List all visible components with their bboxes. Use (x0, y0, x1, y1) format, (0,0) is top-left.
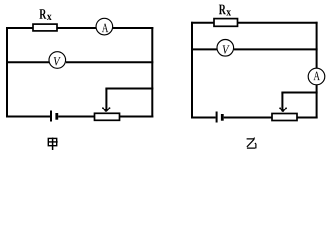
ammeter A (甲) (96, 18, 113, 35)
battery cell (甲): long positive plate (50, 111, 52, 122)
wire: resistor to top-right corner (乙) (238, 22, 318, 24)
battery cell (乙): long positive plate (216, 112, 218, 123)
voltmeter V (乙) (217, 40, 234, 57)
wire: middle left to voltmeter (乙) (191, 48, 217, 50)
wire: right edge lower, ammeter to bottom corner (乙) (316, 85, 318, 119)
wire: middle left to voltmeter (甲) (6, 61, 49, 63)
battery cell (甲): short negative plate (55, 113, 58, 120)
voltmeter V (甲) (49, 52, 66, 69)
battery cell (乙): short negative plate (221, 114, 224, 121)
resistor R_x (乙) (214, 19, 238, 27)
rheostat slider arrow (甲) (105, 89, 107, 111)
label R_x (甲) (39, 9, 46, 19)
wire: left edge (乙) (191, 22, 193, 119)
wire: right edge (甲) (151, 27, 153, 118)
wire: ammeter to top-right corner (甲) (113, 27, 153, 29)
wire: bottom left to battery (乙) (192, 117, 216, 119)
rheostat slider arrow (乙) (281, 93, 283, 111)
wire: voltmeter to right edge (乙) (234, 48, 318, 50)
wire: battery to rheostat (甲) (58, 116, 94, 118)
wire: slider to right edge (乙) (281, 92, 317, 94)
wire: bottom left to battery (甲) (7, 116, 50, 118)
resistor R_x (甲) (33, 24, 57, 31)
wire: right edge upper, to ammeter (乙) (316, 22, 318, 68)
wire: battery to rheostat (乙) (224, 117, 272, 119)
label 乙 (247, 138, 256, 149)
label R_x (乙) (219, 5, 226, 15)
ammeter A (乙) (308, 68, 325, 85)
wire: rheostat to bottom-right corner (乙) (297, 117, 318, 119)
label 甲 (48, 138, 58, 150)
wire: rheostat to bottom-right corner (甲) (120, 116, 154, 118)
wire: slider to right edge (甲) (105, 88, 153, 90)
wire: resistor to ammeter (甲) (57, 27, 96, 29)
rheostat box (甲) (95, 113, 120, 120)
wire: top, corner to resistor (乙) (191, 22, 214, 24)
wire: left edge (甲) (6, 27, 8, 118)
wire: top, corner to resistor (甲) (6, 27, 33, 29)
rheostat box (乙) (272, 114, 297, 121)
wire: voltmeter to right edge (甲) (66, 61, 153, 63)
